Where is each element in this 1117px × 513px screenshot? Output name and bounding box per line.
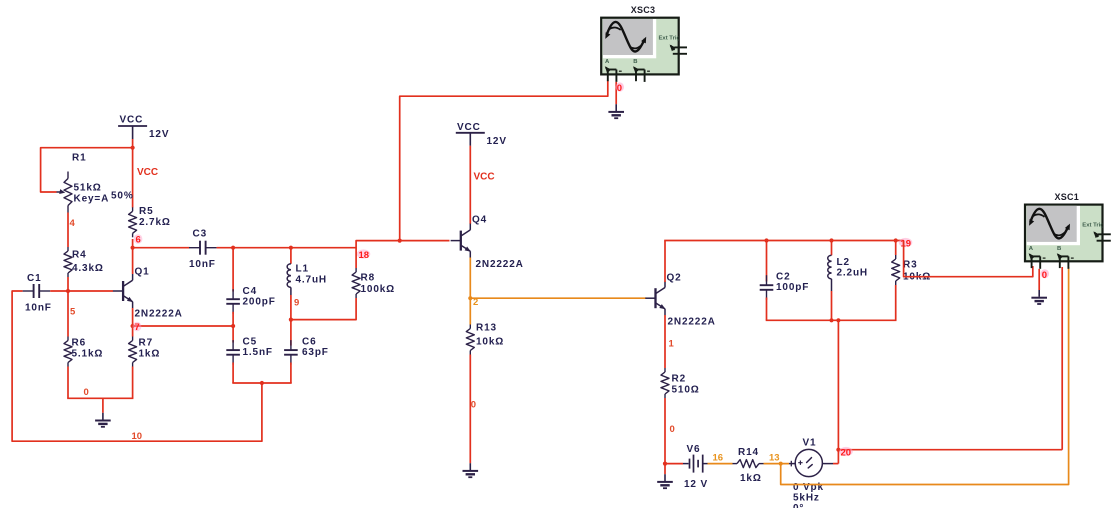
ground (XSC3) xyxy=(615,104,617,111)
svg-text:19: 19 xyxy=(901,239,912,250)
svg-text:0: 0 xyxy=(670,424,675,435)
svg-text:Q2: Q2 xyxy=(667,273,682,284)
ground (XSC1) xyxy=(1038,290,1040,297)
svg-text:XSC3: XSC3 xyxy=(631,5,656,15)
svg-text:1: 1 xyxy=(669,339,675,350)
transistor Q4 2N2222A xyxy=(451,215,524,271)
svg-text:B: B xyxy=(633,59,637,65)
svg-text:Q1: Q1 xyxy=(135,267,150,278)
inductor L1 4.7uH xyxy=(287,246,327,295)
svg-text:2N2222A: 2N2222A xyxy=(668,317,716,328)
capacitor C2 100pF xyxy=(760,241,809,321)
svg-text:L1: L1 xyxy=(296,264,309,275)
wire XSC1 A- to ground xyxy=(1038,269,1040,290)
svg-text:R4: R4 xyxy=(72,250,86,261)
svg-text:C1: C1 xyxy=(27,273,41,284)
wire R4 to base node xyxy=(67,277,69,291)
resistor R3 10k xyxy=(892,241,931,321)
svg-text:12V: 12V xyxy=(487,136,507,147)
wire Q4 emitter (orange) to R13 xyxy=(468,258,472,325)
svg-text:5: 5 xyxy=(70,307,76,318)
svg-text:VCC: VCC xyxy=(120,115,144,126)
ground (under R13) xyxy=(469,463,471,470)
wire Q2 emitter to R2 xyxy=(664,315,666,368)
svg-text:4.7uH: 4.7uH xyxy=(296,275,327,286)
svg-text:V1: V1 xyxy=(803,438,817,449)
capacitor C3 10nF xyxy=(189,229,217,271)
wire node18 rail to XSC3 xyxy=(398,81,608,243)
svg-text:10kΩ: 10kΩ xyxy=(476,336,504,347)
wire Q1 emitter tap xyxy=(131,324,236,328)
node 20 (highlighted) xyxy=(839,447,853,459)
wire L1 to C6 xyxy=(289,295,293,346)
transistor Q2 2N2222A xyxy=(645,273,715,328)
svg-text:R5: R5 xyxy=(139,206,153,217)
ground (left stage) xyxy=(95,398,111,427)
wire R14 to V1 (orange) xyxy=(764,462,790,466)
potentiometer R1 51k Key=A 50% xyxy=(57,153,134,213)
svg-text:2N2222A: 2N2222A xyxy=(135,309,183,320)
wire node 20 to XSC1 B+ xyxy=(838,267,1062,450)
svg-text:VCC: VCC xyxy=(474,172,495,183)
svg-text:0: 0 xyxy=(84,387,89,398)
svg-text:9: 9 xyxy=(294,298,299,309)
svg-text:12 V: 12 V xyxy=(684,479,708,490)
resistor R6 5.1k xyxy=(64,337,103,367)
svg-text:5kHz: 5kHz xyxy=(793,493,820,504)
svg-text:XSC1: XSC1 xyxy=(1055,192,1080,202)
svg-text:200pF: 200pF xyxy=(243,296,276,307)
wire VCC to Q4 collector xyxy=(469,146,471,224)
wire Q2 collector to tank rail xyxy=(664,241,666,283)
svg-text:A: A xyxy=(605,59,610,65)
svg-text:V6: V6 xyxy=(687,444,701,455)
svg-text:0: 0 xyxy=(1042,270,1047,281)
resistor R4 4.3k xyxy=(64,247,104,277)
oscilloscope XSC3 xyxy=(601,5,687,82)
svg-text:Key=A: Key=A xyxy=(74,194,110,205)
svg-text:10nF: 10nF xyxy=(189,259,216,270)
resistor R5 2.7k xyxy=(129,206,171,237)
svg-text:10nF: 10nF xyxy=(25,303,52,314)
wire R1 to R4 xyxy=(67,213,69,248)
svg-text:20: 20 xyxy=(841,448,852,459)
wire VCC rail to R5 xyxy=(131,139,135,208)
svg-text:R7: R7 xyxy=(139,338,153,349)
svg-text:Ext Trig: Ext Trig xyxy=(1082,222,1104,228)
node 6 (highlighted) xyxy=(134,234,143,245)
wire C3 to node 18 xyxy=(217,241,450,248)
svg-text:5.1kΩ: 5.1kΩ xyxy=(72,348,104,359)
power VCC supply 12V (middle) xyxy=(456,122,507,147)
svg-text:51kΩ: 51kΩ xyxy=(74,183,102,194)
wire node 2 to Q2 base (orange) xyxy=(470,297,646,299)
svg-text:R3: R3 xyxy=(903,260,917,271)
svg-text:0: 0 xyxy=(617,83,622,94)
svg-text:B: B xyxy=(1057,246,1061,252)
wire node13 return (orange) to XSC1 B- xyxy=(781,267,1069,485)
svg-text:C3: C3 xyxy=(193,229,207,240)
wire node6 to Q1 collector xyxy=(132,239,134,274)
svg-text:18: 18 xyxy=(359,250,370,261)
resistor R8 100k xyxy=(291,248,395,320)
resistor R2 510 xyxy=(661,368,700,398)
inductor L2 2.2uH xyxy=(828,241,868,321)
svg-text:0°: 0° xyxy=(793,503,804,508)
svg-text:2.2uH: 2.2uH xyxy=(837,268,868,279)
svg-text:4: 4 xyxy=(70,218,76,229)
capacitor C1 10nF xyxy=(23,273,52,314)
svg-text:4.3kΩ: 4.3kΩ xyxy=(72,263,104,274)
power VCC supply 12V (left) xyxy=(118,115,169,141)
oscilloscope XSC1 xyxy=(1025,192,1111,269)
resistor R7 1k xyxy=(129,337,161,367)
wire VCC to R1 wiper xyxy=(41,148,133,192)
wire V1 to node 20 xyxy=(833,463,838,465)
svg-text:63pF: 63pF xyxy=(302,347,329,358)
wire C5/C6 bottom rail xyxy=(232,381,291,385)
wire C1 feedback loop to bottom xyxy=(12,291,262,441)
node 0 (XSC3, highlighted) xyxy=(616,82,624,93)
svg-text:100kΩ: 100kΩ xyxy=(361,284,396,295)
source V1 0Vpk 5kHz xyxy=(789,438,833,513)
svg-text:16: 16 xyxy=(713,453,724,464)
capacitor C4 200pF xyxy=(226,246,275,314)
svg-text:R13: R13 xyxy=(476,323,497,334)
svg-text:50%: 50% xyxy=(111,191,134,202)
node 18 (highlighted) xyxy=(357,249,371,261)
svg-text:R8: R8 xyxy=(361,273,375,284)
wire R13 to ground xyxy=(469,355,471,464)
node 7 (highlighted) xyxy=(133,322,142,333)
svg-text:R14: R14 xyxy=(738,447,759,458)
svg-text:1kΩ: 1kΩ xyxy=(139,348,161,359)
resistor R14 1k xyxy=(733,447,764,484)
svg-text:1kΩ: 1kΩ xyxy=(740,473,762,484)
svg-text:2N2222A: 2N2222A xyxy=(476,259,524,270)
svg-text:6: 6 xyxy=(136,235,141,246)
svg-text:R1: R1 xyxy=(72,153,86,164)
wire Q1 emitter to R7 xyxy=(132,308,134,337)
wire V6 to R14 (orange) xyxy=(708,463,733,465)
wire tank to node 20 xyxy=(836,320,840,463)
tank bottom rail xyxy=(766,318,897,322)
svg-text:Ext Trig: Ext Trig xyxy=(659,36,681,42)
battery V6 12V xyxy=(665,444,708,490)
tank top rail (node 19) xyxy=(664,238,903,242)
svg-text:VCC: VCC xyxy=(137,167,158,178)
svg-text:12V: 12V xyxy=(149,129,169,140)
svg-text:VCC: VCC xyxy=(457,122,481,133)
wire XSC3 A- to ground xyxy=(615,82,617,104)
svg-text:7: 7 xyxy=(135,322,140,333)
node 0 (XSC1, highlighted) xyxy=(1041,269,1049,281)
svg-text:R6: R6 xyxy=(72,338,86,349)
resistor R13 10k xyxy=(466,323,504,355)
wire node19 to XSC1 A xyxy=(904,241,1033,277)
svg-text:13: 13 xyxy=(769,453,780,464)
capacitor C6 63pF xyxy=(284,337,329,384)
svg-text:L2: L2 xyxy=(837,257,850,268)
wire node 6 to C3 xyxy=(131,246,190,250)
svg-text:10: 10 xyxy=(132,431,143,442)
wire emitter rail to ground xyxy=(67,367,133,399)
ground (under R2) xyxy=(657,464,673,489)
svg-text:A: A xyxy=(1029,246,1034,252)
wire R2 to ground node xyxy=(663,398,667,466)
capacitor C5 1.5nF xyxy=(226,312,273,383)
svg-text:R2: R2 xyxy=(672,374,686,385)
svg-text:1.5nF: 1.5nF xyxy=(243,347,273,358)
svg-text:510Ω: 510Ω xyxy=(672,384,700,395)
svg-text:Q4: Q4 xyxy=(472,215,487,226)
svg-text:2.7kΩ: 2.7kΩ xyxy=(139,217,171,228)
svg-text:100pF: 100pF xyxy=(776,282,809,293)
wire base node to R6 xyxy=(67,291,69,337)
wire base node to Q1 xyxy=(50,289,113,293)
node 19 (highlighted) xyxy=(899,238,913,250)
svg-text:0: 0 xyxy=(471,400,476,411)
transistor Q1 2N2222A xyxy=(113,267,183,320)
